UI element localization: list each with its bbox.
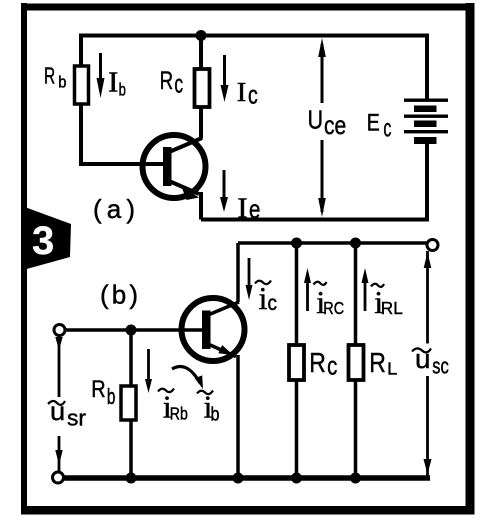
svg-text:Rb: Rb (170, 404, 188, 424)
svg-text:u: u (415, 344, 431, 374)
svg-text:e: e (249, 194, 260, 224)
svg-text:(a): (a) (93, 194, 135, 224)
svg-text:sc: sc (432, 354, 449, 379)
svg-text:u: u (50, 396, 65, 426)
svg-text:RC: RC (323, 298, 344, 318)
svg-text:I: I (237, 194, 247, 225)
svg-text:b: b (58, 73, 66, 92)
svg-text:(b): (b) (100, 280, 138, 310)
svg-text:b: b (107, 384, 116, 409)
svg-text:i: i (259, 280, 268, 316)
svg-text:b: b (119, 80, 126, 100)
svg-text:c: c (383, 114, 391, 142)
svg-text:R: R (369, 347, 386, 378)
svg-text:c: c (174, 69, 183, 99)
svg-text:c: c (248, 80, 258, 110)
svg-text:3: 3 (32, 219, 54, 263)
svg-text:R: R (309, 347, 326, 378)
svg-text:R: R (44, 63, 55, 89)
svg-text:c: c (327, 350, 337, 380)
svg-text:RL: RL (381, 298, 403, 318)
svg-text:L: L (387, 358, 397, 378)
svg-text:I: I (237, 77, 247, 107)
svg-text:b: b (211, 405, 220, 426)
svg-text:I: I (108, 68, 118, 99)
svg-text:R: R (91, 376, 105, 403)
svg-text:E: E (367, 109, 380, 136)
svg-text:U: U (308, 105, 324, 135)
svg-text:c: c (268, 292, 278, 315)
svg-text:sr: sr (67, 406, 86, 431)
svg-text:R: R (160, 67, 174, 95)
svg-text:ce: ce (324, 110, 346, 140)
